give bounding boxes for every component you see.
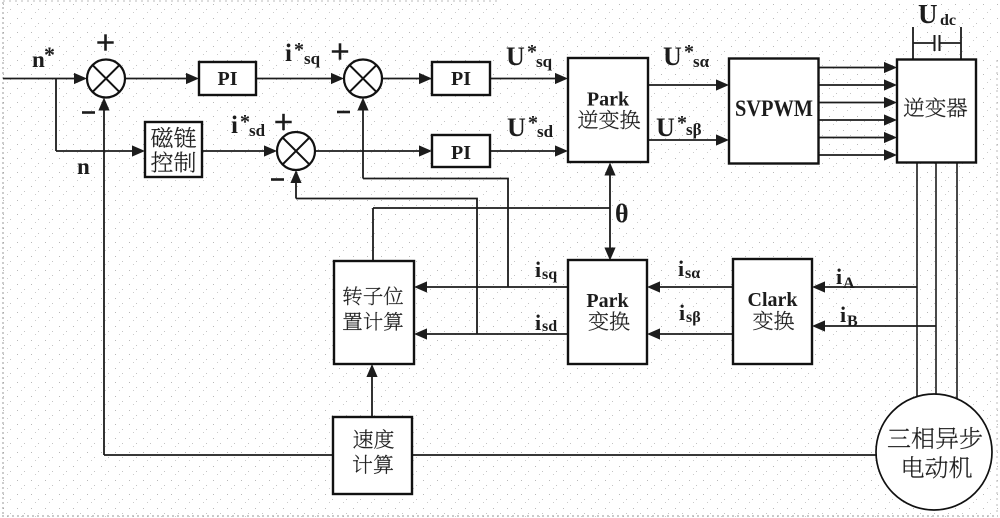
svg-text:dc: dc — [940, 12, 956, 29]
svg-text:n: n — [77, 154, 90, 179]
svg-text:i: i — [535, 257, 541, 282]
svg-text:i: i — [836, 264, 842, 289]
svg-text:Park: Park — [586, 290, 629, 312]
svg-text:sd: sd — [542, 318, 557, 335]
svg-text:i: i — [285, 40, 292, 67]
svg-text:sd: sd — [249, 121, 266, 140]
svg-text:i: i — [679, 300, 685, 325]
svg-text:PI: PI — [218, 68, 238, 90]
svg-text:sq: sq — [536, 52, 553, 71]
svg-text:sq: sq — [304, 49, 321, 68]
svg-text:*: * — [294, 39, 304, 61]
svg-text:U: U — [506, 42, 525, 71]
svg-text:Clark: Clark — [748, 289, 799, 311]
svg-text:i: i — [678, 256, 684, 281]
svg-text:SVPWM: SVPWM — [735, 96, 813, 121]
svg-text:U: U — [663, 42, 682, 71]
svg-text:sα: sα — [693, 52, 710, 71]
svg-text:sd: sd — [537, 122, 554, 141]
svg-text:i: i — [840, 302, 846, 327]
svg-text:i: i — [535, 310, 541, 335]
svg-text:i: i — [231, 112, 238, 139]
svg-text:sβ: sβ — [686, 120, 702, 139]
svg-text:B: B — [847, 313, 858, 330]
svg-text:U: U — [507, 113, 526, 142]
svg-text:PI: PI — [451, 68, 471, 90]
svg-text:sα: sα — [685, 265, 700, 282]
svg-text:U: U — [656, 113, 675, 142]
svg-text:U: U — [918, 0, 938, 29]
svg-text:Park: Park — [587, 89, 630, 111]
svg-text:sq: sq — [542, 266, 557, 283]
svg-text:A: A — [843, 275, 855, 292]
svg-text:PI: PI — [451, 142, 471, 164]
svg-text:sβ: sβ — [686, 309, 701, 326]
svg-text:*: * — [44, 42, 55, 67]
svg-text:θ: θ — [615, 199, 629, 228]
